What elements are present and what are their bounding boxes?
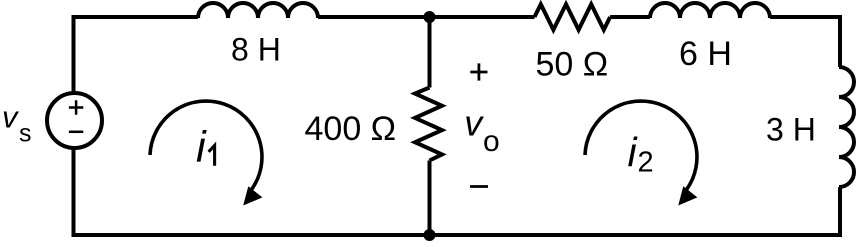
wire middle vertical upper (428, 17, 432, 88)
svg-text:6 H: 6 H (679, 35, 732, 73)
svg-text:v: v (464, 103, 484, 144)
svg-text:400 Ω: 400 Ω (305, 110, 397, 148)
voltage source minus sign (69, 131, 83, 134)
svg-text:v: v (2, 100, 19, 135)
wire top-right corner (770, 17, 840, 67)
svg-text:i: i (196, 124, 207, 172)
output voltage minus sign (470, 185, 488, 188)
voltage source Vs circle (47, 93, 102, 148)
mesh current arrow i1 (150, 101, 262, 190)
inductor L2 6 H (650, 3, 770, 18)
wire top-left corner and left upper segment (74, 17, 199, 93)
output voltage plus sign (470, 63, 487, 80)
inductor L1 8 H (198, 3, 318, 18)
wire from R2 to L2 (610, 15, 650, 19)
svg-text:s: s (19, 120, 32, 148)
svg-text:8 H: 8 H (231, 32, 281, 68)
resistor R2 50 ohm (535, 4, 611, 30)
inductor L3 3 H (839, 67, 854, 187)
svg-text:2: 2 (638, 147, 654, 179)
svg-text:o: o (483, 125, 500, 158)
wire from center node to R2 (430, 15, 535, 19)
svg-text:3 H: 3 H (766, 112, 816, 148)
resistor R1 400 ohm (vertical) (415, 88, 442, 161)
svg-text:50 Ω: 50 Ω (536, 46, 609, 84)
voltage source plus sign (69, 100, 83, 114)
wire middle vertical lower (428, 161, 432, 236)
wire right lower segment, bottom wire and bottom-left corner (74, 148, 841, 235)
wire from L1 to center node (318, 15, 430, 19)
mesh current arrow i2 (585, 101, 697, 190)
node junction dot top (424, 11, 436, 23)
node junction dot bottom (424, 229, 436, 241)
